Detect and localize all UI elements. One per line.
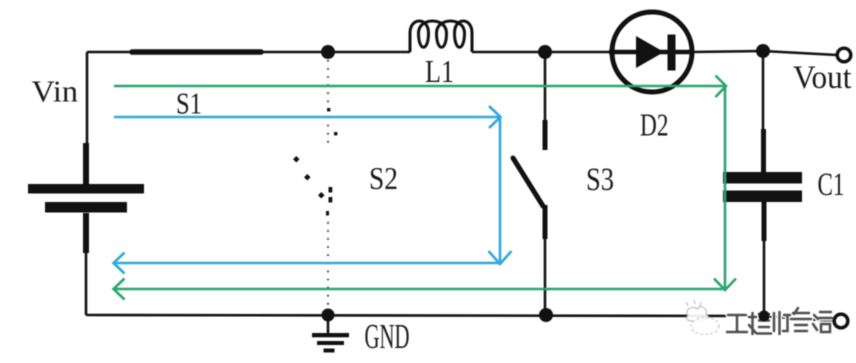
label S2 — [369, 160, 398, 196]
terminal bottom-right open circle — [834, 314, 848, 328]
label D2 — [640, 107, 669, 143]
node bottom GND junction — [322, 309, 335, 322]
wire inductor to S3 node — [472, 51, 545, 54]
svg-text:Vout: Vout — [793, 60, 852, 96]
node top-left junction — [321, 45, 335, 59]
switch S1 closed thick bar — [132, 49, 261, 55]
node top-middle junction — [538, 45, 552, 59]
wire top between S1 and inductor — [261, 51, 410, 54]
node top-right junction — [756, 44, 770, 58]
node bottom C1 junction redrawn over watermark — [759, 311, 770, 322]
watermark text 工程师看海 — [727, 308, 832, 334]
svg-text:S2: S2 — [369, 160, 398, 196]
wire top-left horizontal — [87, 51, 132, 54]
switch S2 open dotted branch — [293, 60, 337, 308]
label L1 — [425, 53, 454, 89]
inductor L1 — [410, 21, 472, 52]
battery Vin source — [28, 143, 144, 253]
terminal bottom-right open circle over watermark — [834, 314, 848, 328]
svg-text:Vin: Vin — [32, 74, 79, 109]
ground — [312, 315, 349, 353]
watermark logo — [686, 300, 719, 335]
label C1 — [818, 167, 845, 203]
capacitor C1 — [723, 58, 802, 316]
label Vout — [793, 60, 852, 96]
node bottom C1 junction — [759, 311, 770, 322]
wire battery to bottom rail — [85, 253, 88, 315]
label Vin — [32, 74, 79, 109]
current loop arrow cyan S1 path — [114, 106, 512, 274]
diode D2 — [609, 12, 694, 92]
label GND — [365, 317, 410, 356]
switch S3 open — [513, 58, 545, 315]
wire output node to Vout terminal — [763, 51, 837, 55]
label S3 — [586, 162, 614, 198]
wire bottom rail — [86, 315, 835, 321]
svg-text:L1: L1 — [425, 53, 454, 89]
terminal Vout open circle — [837, 48, 851, 62]
label S1 — [176, 86, 202, 121]
svg-text:S1: S1 — [176, 86, 202, 121]
svg-text:C1: C1 — [818, 167, 845, 203]
wire S3 node to diode — [545, 51, 610, 54]
node bottom S3 junction — [539, 308, 553, 322]
svg-text:GND: GND — [365, 317, 410, 356]
current loop arrow green — [114, 76, 737, 300]
svg-text:D2: D2 — [640, 107, 669, 143]
wire left vertical from top corner to battery — [86, 52, 89, 145]
svg-text:S3: S3 — [586, 162, 614, 198]
wire diode to output node — [692, 51, 763, 52]
